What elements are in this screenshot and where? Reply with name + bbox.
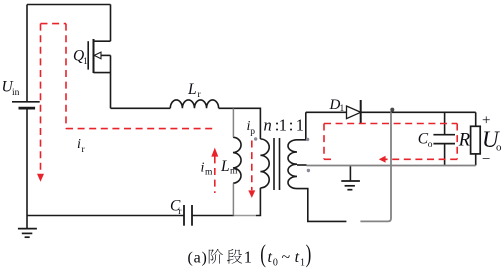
wire red dashed loop right [456,124,458,160]
svg-text:(: ( [260,240,266,268]
transformer secondary winding [288,140,297,189]
svg-text:i: i [77,137,81,152]
svg-text:p: p [250,127,255,137]
wire red dashed top link [41,23,67,25]
wire Co top lead [444,112,446,134]
transistor Q1 body lead [101,54,111,56]
wire bottom rail left [27,215,184,217]
capacitor Cr right plate [191,205,193,226]
wire gray mid bottom rail [234,215,256,217]
wire secondary bottom lead [297,189,346,222]
ground right bar1 [341,180,360,182]
battery Uin bottom plate [19,107,36,110]
svg-text:m: m [230,166,238,176]
wire red dashed loop left [323,124,325,160]
wire source to Lr [111,107,171,109]
wire red dashed loop bottom [386,158,458,160]
resistor R body [471,126,481,154]
junction node dot [390,108,394,112]
inductor L1 (Lr) winding [170,100,218,108]
wire return riser [360,112,391,221]
arrowhead im up [211,148,218,157]
diode D1 cathode bar [360,100,362,123]
wire battery to bottom rail [26,108,28,215]
wire Lm top lead [232,108,234,137]
capacitor Co bottom plate [433,143,455,145]
svg-text:o: o [428,140,433,150]
svg-text:~: ~ [282,249,291,266]
svg-text:1: 1 [244,247,252,266]
transformer core line 2 [279,138,281,190]
svg-text:i: i [201,160,205,175]
arrowhead ir down [37,174,44,182]
svg-text:r: r [198,90,202,100]
transistor Q1 channel line [93,39,95,73]
svg-text:1: 1 [83,57,88,67]
svg-text:m: m [205,168,213,178]
diode D1 triangle [347,106,361,119]
wire red dashed ip shaft [251,141,253,191]
transistor Q1 gate line [87,41,89,69]
polarity dot secondary top [306,138,309,141]
wire source drop [110,55,112,108]
svg-text:L: L [187,81,197,98]
wire output bottom rail [307,165,476,167]
svg-text:t: t [295,249,300,266]
ground right stem [349,165,351,181]
wire Lm bottom lead [232,183,234,215]
ground right bar2 [345,185,355,187]
wire secondary tap stub [297,164,307,166]
ground left stem [26,216,28,229]
arrowhead loop left [379,156,386,163]
battery Uin top plate [12,101,40,103]
wire secondary to diode anode [306,111,347,113]
wire Cr to primary bottom [192,215,234,217]
transistor Q1 body arrow [94,52,101,59]
svg-text:(a): (a) [188,249,208,266]
ground right bar3 [347,189,352,191]
transformer primary winding [260,139,269,188]
transformer core line 1 [273,138,275,190]
wire Lr to primary [219,108,261,139]
wire red dashed gate-side drop [65,24,67,129]
wire red dashed loop top [324,123,457,125]
wire red dashed loop stub [324,158,332,160]
svg-text:r: r [82,145,86,155]
wire drain drop [110,5,112,42]
polarity dot primary [254,137,257,140]
svg-text:): ) [306,240,312,268]
ground left bar1 [18,228,37,230]
ground left bar3 [25,236,30,238]
wire red dashed horizontal to ip [66,128,216,130]
svg-text:t: t [268,249,273,266]
wire red dashed left drop (ir path) [40,24,42,172]
svg-text:0: 0 [273,257,278,268]
transistor Q1 drain lead [94,40,111,42]
inductor L2 (Lm) winding [233,137,241,183]
svg-text:in: in [12,88,20,98]
svg-text:o: o [496,142,502,154]
wire diode to load [361,111,476,113]
wire secondary top lead [297,112,306,140]
wire red dashed im shaft [214,156,216,193]
caption 阶 [209,249,223,264]
svg-text:1: 1 [300,257,305,268]
svg-text:R: R [458,131,470,151]
capacitor Cr left plate [183,205,185,226]
svg-text:n:1:1: n:1:1 [264,115,305,134]
caption 段 [227,249,242,264]
wire left rail upper [26,5,28,102]
ground left bar2 [22,232,33,234]
wire top rail [27,4,111,6]
transistor Q1 source lead [94,72,111,74]
arrowhead ip down [248,190,255,198]
wire Co bottom lead [444,144,446,166]
wire R top lead [475,112,477,126]
wire R bottom lead [475,154,477,166]
polarity dot secondary mid [307,169,310,172]
svg-text:L: L [220,158,230,175]
capacitor Co top plate [433,134,455,136]
svg-text:1: 1 [340,104,345,114]
wire primary bottom lead [256,188,260,216]
svg-text:−: − [482,152,490,168]
